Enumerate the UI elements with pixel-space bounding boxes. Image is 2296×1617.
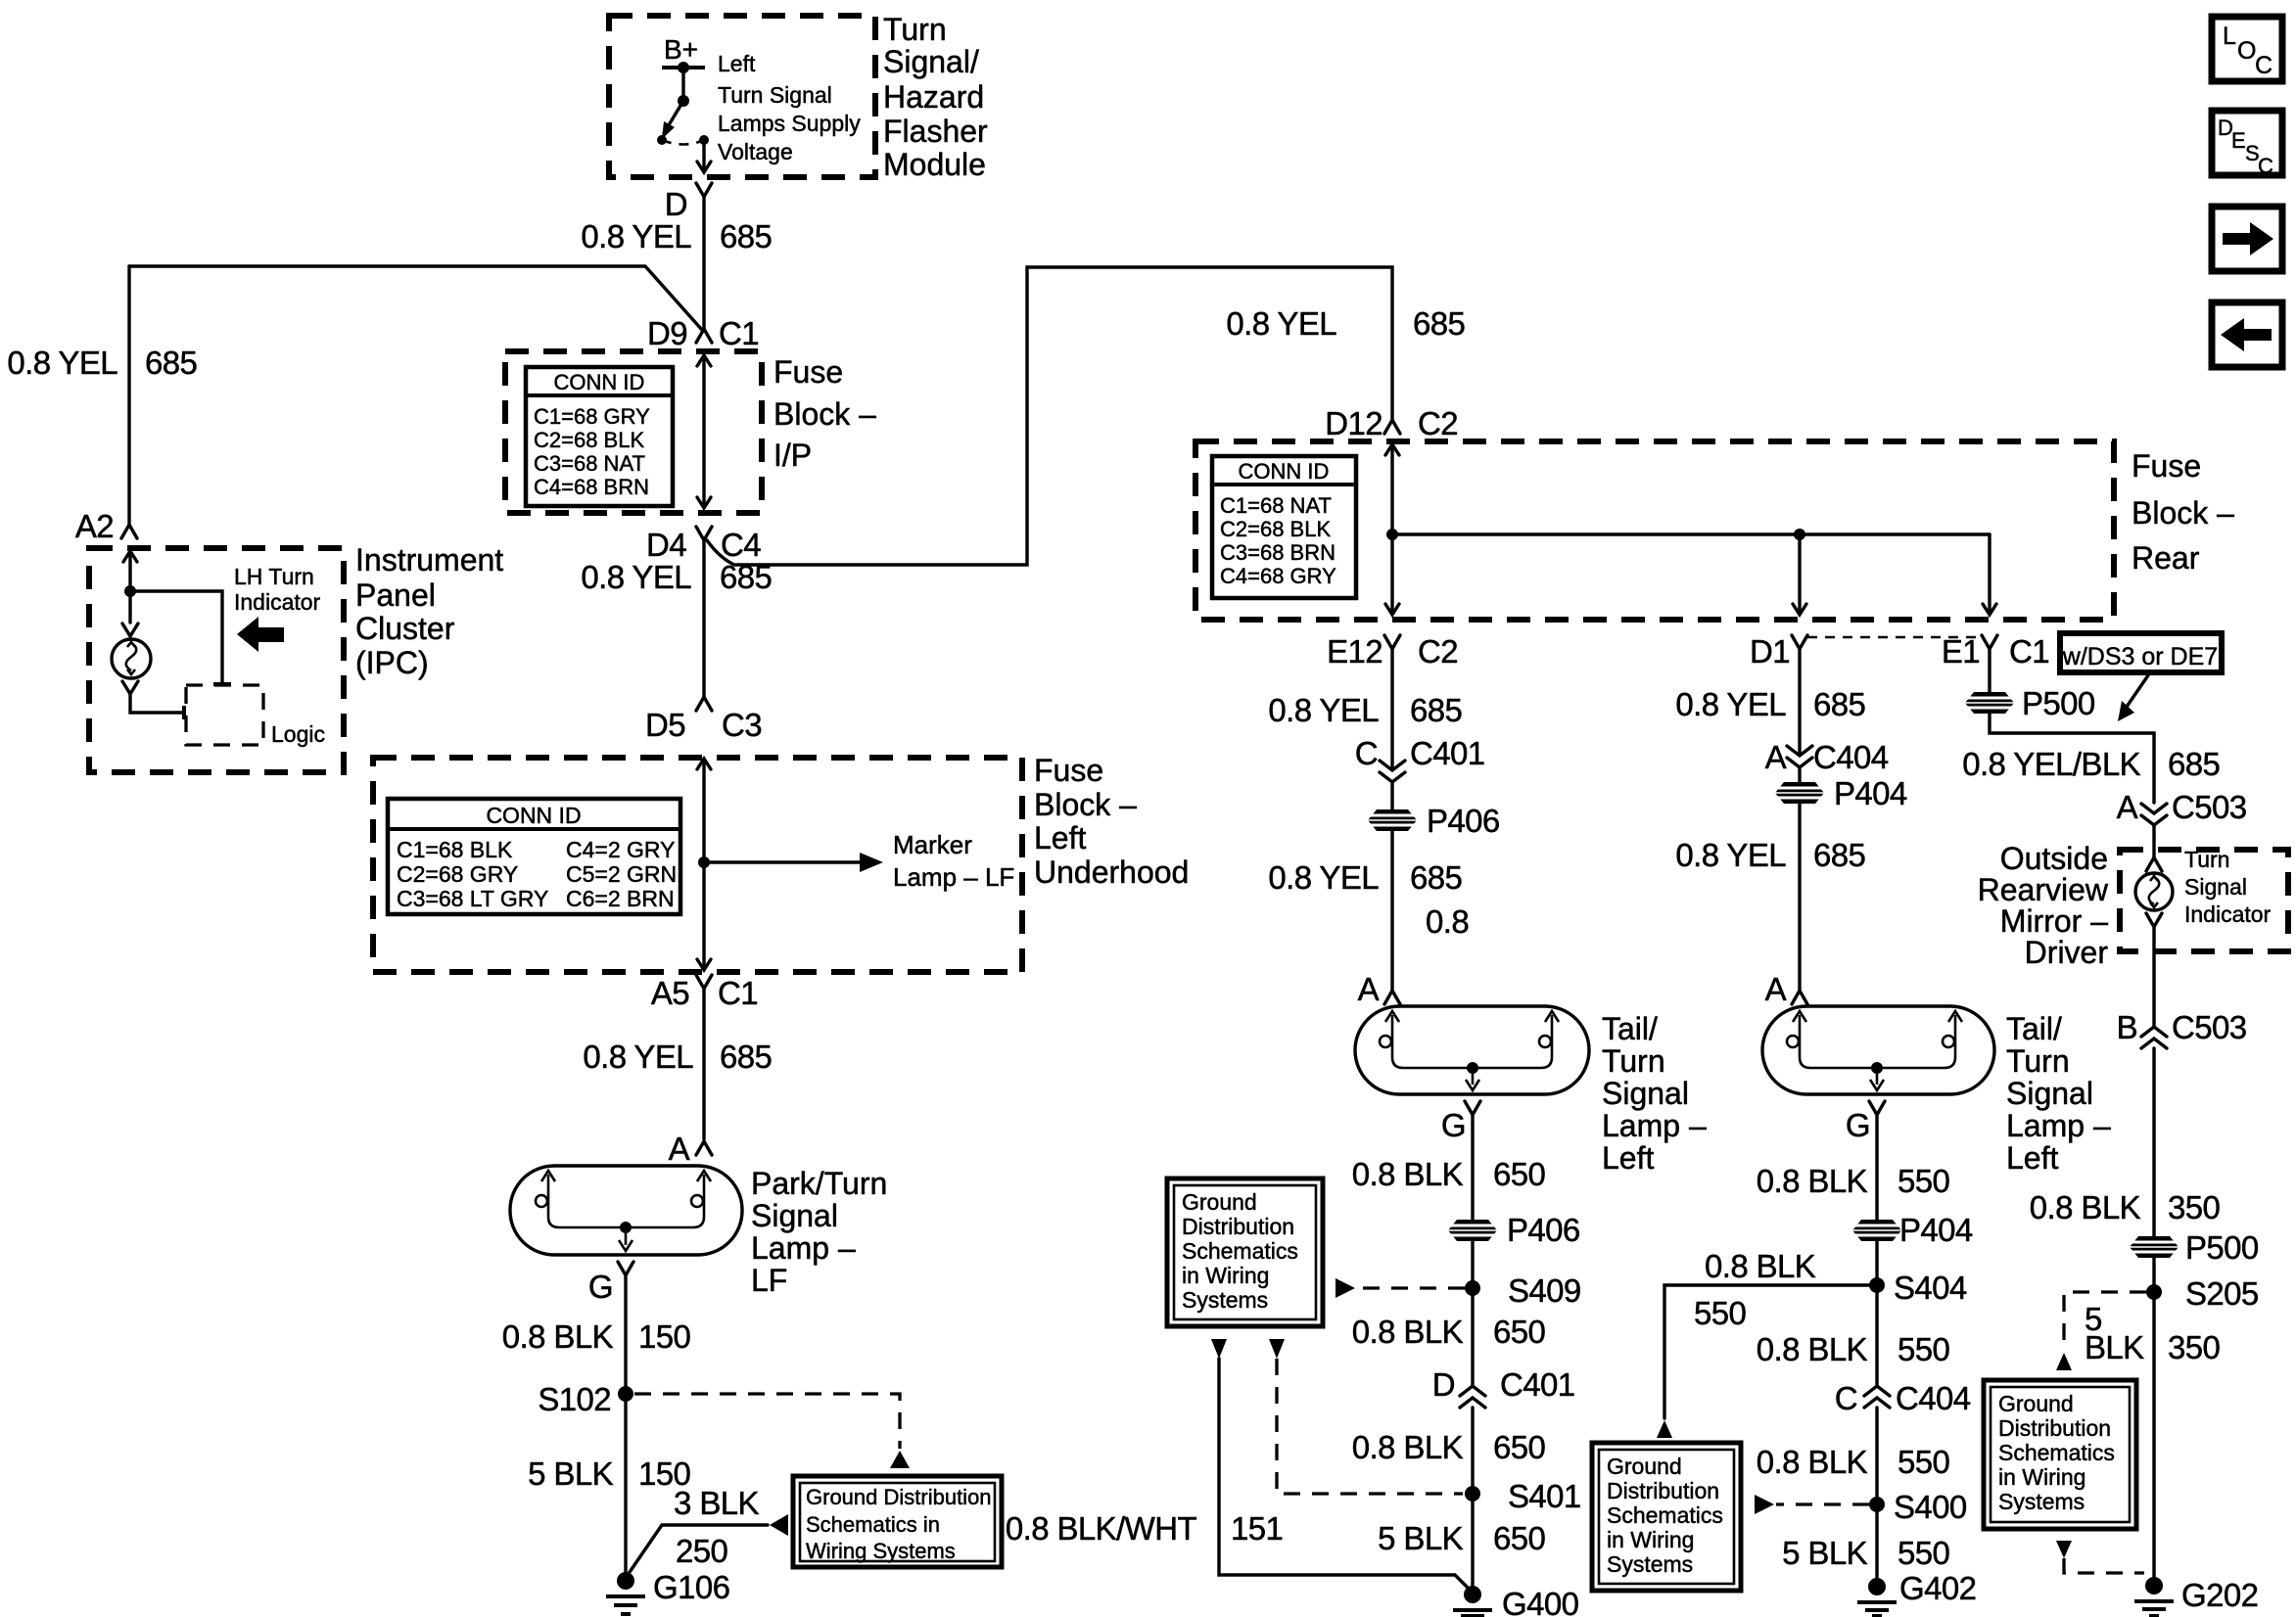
module title bbox=[883, 12, 988, 182]
wire A5 to lamp 0.8 YEL 685 bbox=[702, 989, 705, 1139]
svg-text:D: D bbox=[665, 186, 687, 222]
svg-text:Flasher: Flasher bbox=[883, 114, 988, 149]
wire label 0.8 BLK 650 bbox=[1352, 1429, 1546, 1465]
connector A fork at lamp bbox=[1384, 991, 1400, 1004]
svg-text:A: A bbox=[2117, 789, 2138, 825]
svg-text:Underhood: Underhood bbox=[1034, 855, 1189, 890]
wire branch to IPC (horizontal 0.8 YEL 685) bbox=[129, 266, 702, 330]
svg-text:Ground: Ground bbox=[1607, 1454, 1682, 1479]
wire label 0.8 BLK/WHT 151 bbox=[1006, 1510, 1283, 1547]
svg-text:0.8: 0.8 bbox=[1426, 903, 1469, 940]
pin labels E12 / C2 bbox=[1327, 633, 1458, 670]
svg-text:0.8 YEL: 0.8 YEL bbox=[583, 1039, 693, 1075]
wire to P406 bbox=[1390, 782, 1393, 991]
svg-text:Fuse: Fuse bbox=[773, 354, 843, 390]
svg-text:G: G bbox=[1441, 1107, 1466, 1143]
svg-text:Schematics in: Schematics in bbox=[806, 1512, 940, 1537]
pin labels B / C503 bbox=[2117, 1009, 2247, 1045]
svg-text:0.8 BLK: 0.8 BLK bbox=[1352, 1156, 1464, 1192]
svg-text:0.8 YEL: 0.8 YEL bbox=[1226, 305, 1336, 342]
wire label 5 BLK 150 bbox=[528, 1455, 690, 1492]
svg-text:C4=2 GRY: C4=2 GRY bbox=[566, 837, 675, 862]
svg-text:Voltage: Voltage bbox=[718, 139, 793, 164]
wire label 0.8 YEL 685 bbox=[1268, 859, 1462, 896]
svg-text:in Wiring: in Wiring bbox=[1607, 1527, 1694, 1552]
wire to P404 bbox=[1798, 767, 1801, 991]
connector fork below indicator bbox=[122, 681, 138, 694]
ground G202 bbox=[2134, 1577, 2258, 1616]
svg-text:Lamp – LF: Lamp – LF bbox=[893, 862, 1014, 892]
wire label 3 BLK 250 bbox=[674, 1485, 759, 1569]
fuse block left underhood dashed box bbox=[373, 758, 1022, 972]
grommet P404 (lower) bbox=[1851, 1212, 1973, 1248]
wire to module pin D with down arrow bbox=[697, 140, 711, 172]
svg-text:685: 685 bbox=[720, 218, 772, 254]
svg-text:Signal: Signal bbox=[2006, 1076, 2093, 1111]
svg-text:Systems: Systems bbox=[1998, 1489, 2085, 1514]
wire label 0.8 BLK 550 bbox=[1757, 1444, 1950, 1480]
svg-text:C: C bbox=[2255, 52, 2273, 79]
svg-text:G202: G202 bbox=[2181, 1577, 2258, 1613]
svg-text:G402: G402 bbox=[1899, 1570, 1976, 1606]
connector G fork under lamp L2 bbox=[1465, 1101, 1480, 1115]
svg-text:650: 650 bbox=[1493, 1156, 1546, 1192]
svg-text:P500: P500 bbox=[2022, 685, 2095, 721]
svg-text:Turn: Turn bbox=[1602, 1043, 1665, 1079]
wire G down 0.8 BLK 550 bbox=[1875, 1115, 1878, 1220]
wire label 5 BLK 650 bbox=[1378, 1520, 1545, 1556]
svg-text:Turn: Turn bbox=[883, 12, 947, 47]
svg-text:I/P: I/P bbox=[773, 438, 812, 473]
ground G402 bbox=[1857, 1570, 1976, 1616]
internal bus wire to E1 bbox=[1392, 532, 1990, 535]
fuse block I/P dashed box bbox=[505, 351, 762, 513]
svg-text:CONN ID: CONN ID bbox=[486, 803, 581, 828]
svg-text:(IPC): (IPC) bbox=[355, 645, 429, 680]
inline connector C404 (down) bbox=[1787, 746, 1812, 767]
svg-text:P404: P404 bbox=[1834, 775, 1907, 811]
wire label 0.8 BLK 650 bbox=[1352, 1156, 1546, 1192]
svg-text:Turn: Turn bbox=[2006, 1043, 2070, 1079]
connector D1 fork bbox=[1792, 635, 1807, 649]
black arrow pointing left bbox=[237, 617, 284, 652]
svg-text:Turn Signal: Turn Signal bbox=[718, 82, 832, 108]
svg-text:Signal: Signal bbox=[2184, 874, 2247, 900]
svg-text:Distribution: Distribution bbox=[1182, 1214, 1294, 1239]
svg-text:Signal: Signal bbox=[1602, 1076, 1689, 1111]
svg-text:650: 650 bbox=[1493, 1429, 1546, 1465]
svg-text:Left: Left bbox=[1602, 1140, 1654, 1176]
svg-text:B: B bbox=[2117, 1009, 2137, 1045]
svg-text:0.8 BLK: 0.8 BLK bbox=[502, 1318, 614, 1355]
svg-text:B+: B+ bbox=[664, 34, 698, 65]
wire E12 down 0.8 YEL 685 bbox=[1390, 649, 1393, 769]
node junction at D1 bbox=[1794, 529, 1805, 540]
fuse block rear title bbox=[2132, 448, 2234, 576]
svg-text:350: 350 bbox=[2168, 1189, 2221, 1225]
reference triangle below box to G202 bbox=[2056, 1541, 2072, 1558]
node splice S409 bbox=[1465, 1272, 1581, 1309]
wire C503 to mirror bbox=[2152, 825, 2155, 857]
svg-text:D4: D4 bbox=[646, 527, 686, 563]
svg-text:650: 650 bbox=[1493, 1520, 1546, 1556]
IPC dashed box bbox=[89, 548, 344, 772]
svg-text:C1: C1 bbox=[2009, 633, 2049, 670]
lamp title Park/Turn Signal Lamp - LF bbox=[751, 1166, 887, 1298]
svg-text:CONN ID: CONN ID bbox=[554, 370, 645, 394]
ground distribution reference box (left) bbox=[793, 1476, 1002, 1567]
wire label 0.8 YEL 685 bbox=[1675, 837, 1865, 873]
svg-text:Systems: Systems bbox=[1607, 1551, 1693, 1577]
wire junction down to indicator lamp bbox=[128, 591, 131, 623]
svg-text:C1=68 GRY: C1=68 GRY bbox=[534, 404, 650, 429]
indicator lamp LH Turn bbox=[112, 639, 151, 678]
wire D4 down to D5 bbox=[702, 540, 705, 697]
svg-text:C: C bbox=[2258, 154, 2273, 178]
svg-text:D5: D5 bbox=[645, 707, 685, 743]
wire label 0.8 YEL 685 (to rear) bbox=[1226, 305, 1465, 342]
module: Turn Signal/Hazard Flasher Module box bbox=[609, 16, 875, 177]
internal wire down to E1 with arrow bbox=[1983, 534, 1996, 615]
svg-text:E: E bbox=[2231, 128, 2246, 153]
svg-text:A5: A5 bbox=[651, 975, 689, 1011]
wire 0.8 YEL 685 (module to fuse block) bbox=[702, 197, 705, 330]
svg-text:E1: E1 bbox=[1942, 633, 1980, 670]
svg-text:Lamp –: Lamp – bbox=[751, 1230, 856, 1266]
svg-text:685: 685 bbox=[1813, 837, 1865, 873]
pin labels C / C401 bbox=[1355, 735, 1485, 771]
svg-text:C5=2 GRN: C5=2 GRN bbox=[566, 861, 677, 887]
svg-text:L: L bbox=[2223, 23, 2236, 50]
svg-text:0.8 BLK: 0.8 BLK bbox=[1705, 1248, 1816, 1284]
svg-text:0.8 BLK/WHT: 0.8 BLK/WHT bbox=[1006, 1510, 1197, 1547]
pin labels A5 / C1 bbox=[651, 975, 758, 1011]
wire G to S102 0.8 BLK 150 bbox=[624, 1275, 627, 1394]
inline connector C503 (up) bbox=[2141, 1027, 2167, 1048]
connector D4/C4 fork bbox=[696, 527, 712, 540]
dashed switch throw arc bbox=[662, 140, 704, 145]
svg-text:3 BLK: 3 BLK bbox=[674, 1485, 759, 1521]
svg-text:E12: E12 bbox=[1327, 633, 1382, 670]
svg-text:Schematics: Schematics bbox=[1607, 1502, 1723, 1528]
LOC legend box bbox=[2212, 17, 2282, 81]
svg-text:LH Turn: LH Turn bbox=[234, 564, 314, 589]
wire S102 to G106 5 BLK 150 bbox=[624, 1394, 627, 1578]
reference triangle (dashed line) under box bbox=[1269, 1339, 1285, 1359]
wire label 0.8 YEL 685 bbox=[583, 1039, 772, 1075]
ground distribution reference box (middle) bbox=[1592, 1443, 1741, 1591]
lamp L1: Park/Turn Signal Lamp - LF bbox=[510, 1166, 742, 1255]
svg-text:C4=68 BRN: C4=68 BRN bbox=[534, 475, 649, 499]
svg-text:A2: A2 bbox=[75, 508, 114, 544]
svg-text:0.8 BLK: 0.8 BLK bbox=[1757, 1163, 1868, 1199]
svg-text:685: 685 bbox=[1410, 859, 1462, 896]
svg-text:C3=68 NAT: C3=68 NAT bbox=[534, 451, 645, 476]
lamp L3 title bbox=[2006, 1011, 2111, 1176]
svg-text:C: C bbox=[1355, 735, 1378, 771]
svg-text:Indicator: Indicator bbox=[234, 589, 321, 615]
svg-text:C4=68 GRY: C4=68 GRY bbox=[1220, 564, 1336, 588]
svg-text:D1: D1 bbox=[1750, 633, 1790, 670]
dashed reference S400 to ground distribution box bbox=[1755, 1495, 1869, 1514]
svg-text:250: 250 bbox=[676, 1533, 728, 1569]
wire S409 to C401 0.8 BLK 650 bbox=[1471, 1288, 1474, 1385]
node junction to marker lamp bbox=[698, 856, 710, 868]
svg-text:Instrument: Instrument bbox=[355, 542, 503, 577]
node splice S205 bbox=[2146, 1275, 2259, 1312]
label Marker Lamp - LF bbox=[893, 830, 1014, 892]
svg-text:G106: G106 bbox=[653, 1569, 729, 1605]
dashed tie between D1 and E1 connectors bbox=[1807, 636, 1982, 639]
connector A2 fork bbox=[121, 525, 137, 538]
svg-text:Ground: Ground bbox=[1182, 1189, 1257, 1215]
node junction in IPC bbox=[124, 585, 136, 597]
svg-text:S401: S401 bbox=[1508, 1478, 1581, 1514]
lamp L2 title bbox=[1602, 1011, 1707, 1176]
connector G fork under lamp L3 bbox=[1869, 1101, 1885, 1115]
svg-text:0.8 YEL: 0.8 YEL bbox=[1675, 686, 1786, 722]
svg-text:C2=68 BLK: C2=68 BLK bbox=[534, 428, 644, 452]
svg-text:A: A bbox=[669, 1131, 690, 1167]
svg-text:Left: Left bbox=[2006, 1140, 2058, 1176]
svg-text:P500: P500 bbox=[2185, 1229, 2259, 1266]
svg-text:5 BLK: 5 BLK bbox=[1782, 1535, 1867, 1571]
svg-text:685: 685 bbox=[1413, 305, 1465, 342]
svg-text:C1=68 NAT: C1=68 NAT bbox=[1220, 493, 1332, 518]
svg-text:D9: D9 bbox=[647, 315, 687, 351]
wire D1 down 0.8 YEL 685 bbox=[1798, 649, 1801, 755]
wire branch 0.8 BLK 550 to ground distribution box bbox=[1657, 1285, 1870, 1438]
svg-text:O: O bbox=[2237, 37, 2256, 65]
svg-text:Distribution: Distribution bbox=[1998, 1415, 2111, 1441]
switch output contact bbox=[699, 135, 709, 145]
wire label 5 BLK 350 bbox=[2085, 1301, 2221, 1365]
svg-text:S102: S102 bbox=[538, 1381, 611, 1417]
wire 3 BLK 250 to ground distribution box bbox=[626, 1514, 788, 1578]
svg-text:C1=68 BLK: C1=68 BLK bbox=[397, 837, 513, 862]
svg-text:S205: S205 bbox=[2185, 1275, 2259, 1312]
svg-text:0.8 YEL: 0.8 YEL bbox=[1268, 692, 1379, 728]
wire label 0.8 BLK 550 bbox=[1757, 1331, 1950, 1367]
svg-text:Logic: Logic bbox=[271, 721, 325, 747]
svg-text:A: A bbox=[1765, 739, 1787, 775]
svg-text:Block –: Block – bbox=[2132, 495, 2234, 531]
internal wire from D12 with up arrow bbox=[1385, 444, 1399, 534]
svg-text:Lamp –: Lamp – bbox=[2006, 1108, 2111, 1143]
svg-text:0.8 BLK: 0.8 BLK bbox=[1757, 1331, 1868, 1367]
svg-text:C: C bbox=[1835, 1380, 1857, 1416]
wire 0.8 YEL 685 (left drop to IPC) bbox=[127, 266, 130, 526]
svg-text:BLK: BLK bbox=[2085, 1329, 2144, 1365]
svg-text:Rear: Rear bbox=[2132, 540, 2200, 576]
svg-text:C1: C1 bbox=[718, 975, 758, 1011]
internal wire with up arrow from A2 bbox=[123, 551, 137, 591]
wire P406 to S409 bbox=[1471, 1241, 1474, 1288]
connector A fork at lamp bbox=[1792, 991, 1807, 1004]
wire label 5 BLK 550 bbox=[1782, 1535, 1949, 1571]
svg-text:Lamps Supply: Lamps Supply bbox=[718, 111, 861, 136]
connector fork into mirror bbox=[2146, 857, 2162, 871]
svg-text:C401: C401 bbox=[1410, 735, 1485, 771]
ground distribution reference box (right) bbox=[1984, 1380, 2136, 1529]
svg-text:0.8 BLK: 0.8 BLK bbox=[1757, 1444, 1868, 1480]
wire indicator to logic bbox=[130, 694, 184, 719]
label LH Turn Indicator bbox=[234, 564, 321, 615]
svg-text:Hazard: Hazard bbox=[883, 79, 984, 115]
pin labels C / C404 bbox=[1835, 1380, 1971, 1416]
svg-text:Module: Module bbox=[883, 147, 986, 182]
node splice S401 bbox=[1465, 1478, 1581, 1514]
svg-text:Panel: Panel bbox=[355, 577, 436, 613]
wire label 0.8 YEL 685 bbox=[581, 559, 772, 595]
wire C503 to G202 0.8 BLK 350 bbox=[2152, 1048, 2155, 1579]
svg-text:Ground Distribution: Ground Distribution bbox=[806, 1485, 992, 1509]
DESC legend box bbox=[2212, 111, 2282, 178]
wire label 0.8 YEL 685 bbox=[581, 218, 772, 254]
svg-text:Wiring Systems: Wiring Systems bbox=[806, 1539, 956, 1563]
svg-text:Left: Left bbox=[718, 51, 756, 76]
lamp L2: Tail/Turn Signal Lamp - Left bbox=[1355, 1006, 1589, 1094]
pin labels D4 / C4 bbox=[646, 527, 761, 563]
grommet P500 (lower) bbox=[2128, 1229, 2259, 1266]
logic dashed box bbox=[186, 685, 263, 745]
node B+ terminal bbox=[662, 34, 705, 73]
pin labels D12 / C2 bbox=[1325, 405, 1458, 441]
svg-text:C4: C4 bbox=[721, 527, 761, 563]
svg-text:0.8 YEL/BLK: 0.8 YEL/BLK bbox=[1962, 746, 2140, 782]
svg-text:0.8 BLK: 0.8 BLK bbox=[2030, 1189, 2141, 1225]
svg-text:Systems: Systems bbox=[1182, 1287, 1268, 1313]
svg-text:Block –: Block – bbox=[1034, 787, 1137, 822]
internal wire down to D1 with arrow bbox=[1793, 534, 1806, 615]
svg-text:C1: C1 bbox=[719, 315, 759, 351]
IPC title bbox=[355, 542, 503, 680]
node junction in rear block bbox=[1386, 529, 1398, 540]
connector pin D fork bbox=[696, 183, 712, 197]
grommet P500 bbox=[1963, 685, 2095, 721]
callout box w/DS3 or DE7 bbox=[2060, 633, 2222, 672]
svg-text:685: 685 bbox=[2168, 746, 2220, 782]
svg-text:in Wiring: in Wiring bbox=[1182, 1263, 1269, 1288]
label: Left Turn Signal Lamps Supply Voltage bbox=[718, 51, 861, 164]
svg-text:A: A bbox=[1765, 971, 1787, 1007]
connector A fork at lamp bbox=[696, 1141, 712, 1155]
grommet P404 bbox=[1773, 775, 1907, 811]
indicator lamp turn signal bbox=[2135, 873, 2173, 910]
ground distribution reference box (middle-left) bbox=[1167, 1178, 1323, 1326]
svg-text:Indicator: Indicator bbox=[2184, 901, 2272, 927]
svg-text:Signal: Signal bbox=[751, 1198, 838, 1233]
svg-text:685: 685 bbox=[720, 1039, 772, 1075]
switch arm (left turn signal contact) bbox=[657, 101, 683, 145]
svg-text:Schematics: Schematics bbox=[1182, 1238, 1298, 1264]
svg-text:CONN ID: CONN ID bbox=[1239, 459, 1330, 484]
inline connector C503 (down) bbox=[2141, 804, 2167, 825]
svg-text:Cluster: Cluster bbox=[355, 611, 455, 646]
CONN ID table (I/P) bbox=[526, 367, 673, 506]
svg-text:C503: C503 bbox=[2172, 789, 2247, 825]
svg-text:S409: S409 bbox=[1508, 1272, 1581, 1309]
ground G106 bbox=[606, 1569, 729, 1614]
connector G fork under lamp bbox=[618, 1262, 633, 1275]
fuse block I/P title bbox=[773, 354, 876, 473]
svg-text:C3: C3 bbox=[722, 707, 762, 743]
svg-text:550: 550 bbox=[1898, 1331, 1950, 1367]
grommet P406 bbox=[1366, 803, 1500, 839]
svg-text:G: G bbox=[588, 1269, 613, 1305]
internal wire with arrows (D5 to A5) bbox=[697, 759, 711, 970]
svg-text:D: D bbox=[1432, 1366, 1455, 1403]
internal wire down to E12 with arrow bbox=[1385, 534, 1399, 615]
svg-text:685: 685 bbox=[1410, 692, 1462, 728]
svg-text:Block –: Block – bbox=[773, 396, 876, 432]
label Turn Signal Indicator bbox=[2184, 847, 2272, 927]
svg-text:5 BLK: 5 BLK bbox=[1378, 1520, 1463, 1556]
connector D9/C1 fork bbox=[696, 329, 712, 343]
svg-text:in Wiring: in Wiring bbox=[1998, 1464, 2085, 1490]
svg-text:151: 151 bbox=[1231, 1510, 1283, 1547]
wire G down 0.8 BLK 650 bbox=[1471, 1115, 1474, 1219]
svg-text:C2=68 BLK: C2=68 BLK bbox=[1220, 517, 1331, 541]
wire label 0.8 BLK 550 bbox=[1757, 1163, 1950, 1199]
svg-text:LF: LF bbox=[751, 1263, 787, 1298]
svg-text:Outside: Outside bbox=[2000, 841, 2108, 876]
dashed reference from S102 to ground distribution box bbox=[634, 1394, 910, 1468]
pin labels D9 / C1 bbox=[647, 315, 759, 351]
internal wire with arrows (D9 to D4) bbox=[697, 355, 711, 508]
connector E1 fork bbox=[1982, 635, 1997, 649]
svg-text:350: 350 bbox=[2168, 1329, 2221, 1365]
CONN ID table (rear) bbox=[1212, 456, 1356, 598]
wire label 0.8 YEL 685 bbox=[1268, 692, 1462, 728]
fuse block rear dashed box bbox=[1195, 441, 2114, 620]
wire label 0.8 BLK 350 bbox=[2030, 1189, 2221, 1225]
svg-text:Lamp –: Lamp – bbox=[1602, 1108, 1707, 1143]
svg-text:G400: G400 bbox=[1502, 1586, 1579, 1617]
wire C4 branch to fuse block rear (long run) bbox=[707, 267, 1392, 565]
svg-text:550: 550 bbox=[1898, 1444, 1950, 1480]
wire mirror to B/C503 bbox=[2152, 927, 2155, 1026]
svg-text:P406: P406 bbox=[1427, 803, 1500, 839]
connector D5/C3 fork bbox=[696, 697, 712, 711]
wire label 0.8 BLK 150 bbox=[502, 1318, 691, 1355]
wire C404 to S400 0.8 BLK 550 bbox=[1875, 1408, 1878, 1580]
svg-text:Marker: Marker bbox=[893, 830, 972, 859]
svg-text:Fuse: Fuse bbox=[1034, 753, 1103, 788]
svg-text:C2: C2 bbox=[1418, 633, 1458, 670]
connector A5/C1 fork bbox=[696, 975, 712, 989]
reference triangle (solid line) under box bbox=[1211, 1339, 1227, 1359]
outside rearview mirror dashed box bbox=[2120, 850, 2288, 951]
left-arrow legend box bbox=[2212, 302, 2282, 367]
svg-text:S404: S404 bbox=[1894, 1270, 1967, 1306]
node splice S400 bbox=[1869, 1489, 1967, 1525]
dashed reference S205 to ground distribution box bbox=[2056, 1292, 2146, 1370]
pin labels D / C401 bbox=[1432, 1366, 1575, 1403]
svg-text:550: 550 bbox=[1694, 1295, 1747, 1331]
grommet P406 (lower) bbox=[1446, 1212, 1580, 1248]
svg-text:C3=68 BRN: C3=68 BRN bbox=[1220, 540, 1335, 565]
svg-text:Signal/: Signal/ bbox=[883, 44, 979, 79]
svg-text:A: A bbox=[1358, 971, 1380, 1007]
wire label 0.8 BLK 650 bbox=[1352, 1314, 1546, 1350]
svg-text:C503: C503 bbox=[2172, 1009, 2247, 1045]
svg-text:5 BLK: 5 BLK bbox=[528, 1455, 613, 1492]
svg-text:0.8 BLK: 0.8 BLK bbox=[1352, 1429, 1464, 1465]
pin labels D5 / C3 bbox=[645, 707, 762, 743]
svg-text:650: 650 bbox=[1493, 1314, 1546, 1350]
svg-text:Fuse: Fuse bbox=[2132, 448, 2201, 484]
